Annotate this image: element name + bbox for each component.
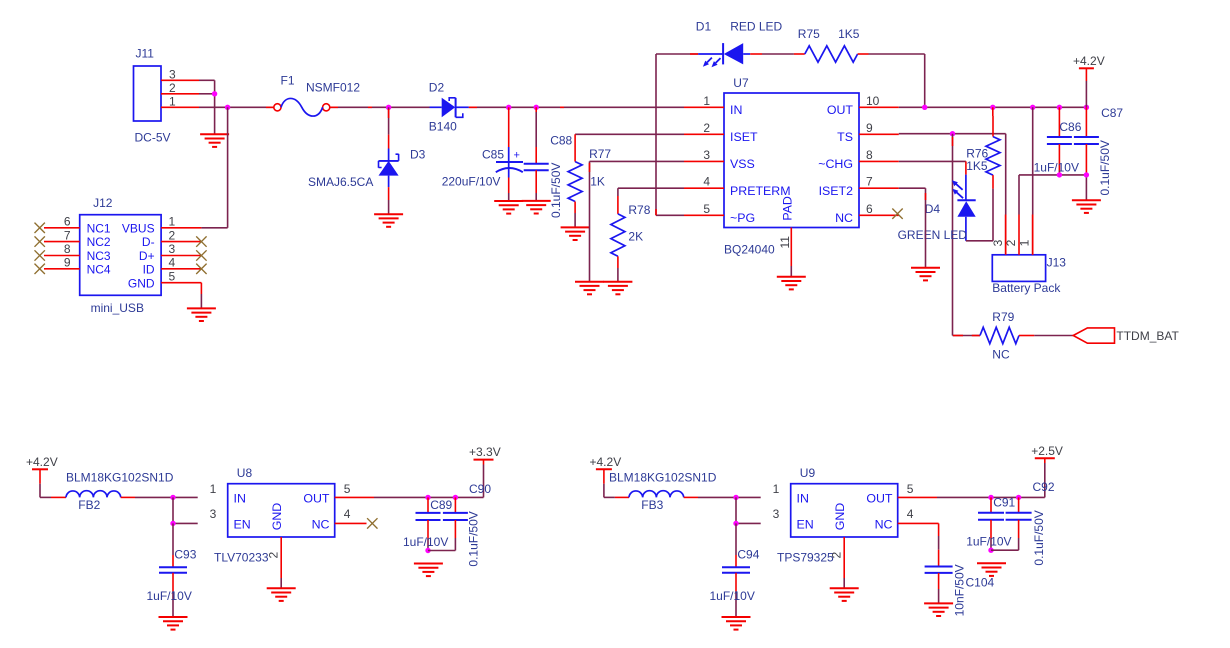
capacitor C85 220uF/10V xyxy=(442,107,523,201)
wire J11 pin1 to F1 xyxy=(199,106,274,108)
svg-text:1K5: 1K5 xyxy=(838,27,860,41)
svg-text:2: 2 xyxy=(1004,239,1018,246)
svg-text:4: 4 xyxy=(344,507,351,521)
capacitor C94 1uF/10V xyxy=(735,523,737,555)
ground J12 xyxy=(187,308,216,321)
junction dot C91 top xyxy=(988,495,993,500)
wire R75 to OUT xyxy=(924,54,926,107)
svg-text:5: 5 xyxy=(344,482,351,496)
svg-text:OUT: OUT xyxy=(303,492,330,506)
svg-text:7: 7 xyxy=(866,175,873,189)
svg-text:C89: C89 xyxy=(430,498,452,512)
junction dot VBUS node xyxy=(225,105,230,110)
svg-text:NC: NC xyxy=(835,211,853,225)
wire J12 VBUS xyxy=(201,227,227,229)
svg-text:TS: TS xyxy=(837,130,853,144)
junction dot C91 bottom xyxy=(988,548,993,553)
svg-text:10: 10 xyxy=(866,94,880,108)
svg-text:3: 3 xyxy=(210,507,217,521)
wire OUT rail xyxy=(899,106,1087,108)
svg-text:10nF/50V: 10nF/50V xyxy=(953,564,967,616)
net flag TTDM_BAT xyxy=(1073,328,1179,343)
wire IN node U8 section xyxy=(173,496,198,498)
svg-text:FB3: FB3 xyxy=(641,498,663,512)
svg-text:TLV70233: TLV70233 xyxy=(214,551,269,565)
wire J11 pin3 to gnd bus xyxy=(199,79,215,81)
svg-text:NC4: NC4 xyxy=(87,262,111,276)
junction dot C87 bottom xyxy=(1084,172,1089,177)
svg-text:C90: C90 xyxy=(469,482,491,496)
svg-text:GND: GND xyxy=(128,276,155,290)
svg-text:0.1uF/50V: 0.1uF/50V xyxy=(1032,510,1046,565)
svg-text:2: 2 xyxy=(830,552,844,559)
resistor R79 NC xyxy=(953,310,1074,362)
junction dot EN U9 section xyxy=(733,521,738,526)
svg-text:+4.2V: +4.2V xyxy=(1073,54,1105,68)
junction dot EN U8 section xyxy=(170,521,175,526)
no-connect X J12 pin 6 xyxy=(35,223,45,233)
power +4.2V U8 section xyxy=(26,455,58,470)
svg-text:NC3: NC3 xyxy=(87,249,111,263)
svg-text:D1: D1 xyxy=(696,20,712,34)
svg-text:OUT: OUT xyxy=(866,492,893,506)
power +2.5V xyxy=(1031,444,1063,459)
svg-text:C93: C93 xyxy=(174,548,196,562)
connector J12 mini_USB xyxy=(44,196,201,315)
ground C94 xyxy=(722,617,751,630)
junction dot J13 pin1 top xyxy=(1030,105,1035,110)
svg-text:8: 8 xyxy=(64,242,71,256)
svg-text:C104: C104 xyxy=(966,575,995,589)
wire OUT rail U8 xyxy=(428,496,484,498)
wire OUT U8 section xyxy=(335,496,374,498)
wire F1 to D2 xyxy=(330,106,430,108)
svg-text:D+: D+ xyxy=(139,249,155,263)
resistor R75 1K5 xyxy=(750,27,925,62)
svg-text:TPS79325: TPS79325 xyxy=(777,551,834,565)
wire VBUS vertical to J12 xyxy=(227,107,229,228)
junction dot pin2/gnd xyxy=(212,91,217,96)
junction dot C86 top xyxy=(1057,105,1062,110)
svg-text:9: 9 xyxy=(64,256,71,270)
svg-text:C86: C86 xyxy=(1059,120,1081,134)
svg-text:C94: C94 xyxy=(737,548,759,562)
svg-text:U9: U9 xyxy=(800,466,816,480)
no-connect X J12 pin 8 xyxy=(35,250,45,260)
svg-text:4: 4 xyxy=(169,256,176,270)
LED D4 GREEN LED xyxy=(898,175,976,242)
svg-text:mini_USB: mini_USB xyxy=(91,301,144,315)
junction dot C88 xyxy=(534,105,539,110)
wire U9 NC to C104 xyxy=(898,522,939,524)
svg-text:1: 1 xyxy=(1018,239,1032,246)
svg-text:BQ24040: BQ24040 xyxy=(724,243,775,257)
ground C104 xyxy=(924,603,953,616)
svg-text:B140: B140 xyxy=(429,120,457,134)
wire U7 ~CHG to D4 xyxy=(899,160,966,162)
ground U7 PAD pin11 xyxy=(777,277,806,290)
svg-text:J11: J11 xyxy=(136,47,155,61)
svg-text:PAD: PAD xyxy=(780,196,794,221)
svg-text:PRETERM: PRETERM xyxy=(730,184,791,198)
svg-text:7: 7 xyxy=(64,228,71,242)
svg-text:ISET: ISET xyxy=(730,130,758,144)
svg-text:4: 4 xyxy=(703,175,710,189)
ferrite bead FB2 BLM18KG102SN1D xyxy=(40,496,51,498)
ground C85 xyxy=(494,201,523,214)
ferrite bead FB3 BLM18KG102SN1D xyxy=(604,496,615,498)
svg-text:R79: R79 xyxy=(992,310,1014,324)
svg-text:~PG: ~PG xyxy=(730,211,755,225)
junction dot C90 top xyxy=(453,495,458,500)
ground VSS xyxy=(575,282,604,295)
ground C86/C87 xyxy=(1072,200,1101,213)
svg-text:+4.2V: +4.2V xyxy=(590,455,622,469)
ground D3 xyxy=(374,214,403,227)
no-connect X J12 ID xyxy=(196,264,206,274)
svg-text:FB2: FB2 xyxy=(78,498,100,512)
svg-text:C85: C85 xyxy=(482,147,504,161)
svg-text:J12: J12 xyxy=(93,196,113,210)
no-connect X J12 pin 7 xyxy=(35,236,45,246)
wire J13 pin1 vertical xyxy=(1032,107,1034,255)
svg-text:3: 3 xyxy=(773,507,780,521)
svg-text:NC: NC xyxy=(312,518,330,532)
resistor R77 1K xyxy=(568,134,611,227)
ground J11 xyxy=(200,134,229,147)
svg-text:3: 3 xyxy=(169,68,176,82)
svg-text:2: 2 xyxy=(169,81,176,95)
IC U8 TLV70233 xyxy=(228,484,335,537)
junction dot C92 top xyxy=(1016,495,1021,500)
svg-text:C91: C91 xyxy=(993,495,1015,509)
svg-text:OUT: OUT xyxy=(827,103,854,117)
wire U7 ISET2 to ground xyxy=(899,187,926,189)
svg-text:3: 3 xyxy=(169,242,176,256)
svg-text:GREEN LED: GREEN LED xyxy=(898,228,968,242)
svg-text:IN: IN xyxy=(730,103,742,117)
svg-text:8: 8 xyxy=(866,148,873,162)
junction dot C86 bottom xyxy=(1057,172,1062,177)
svg-text:ISET2: ISET2 xyxy=(819,184,854,198)
wire J13 pin2 vertical xyxy=(1018,175,1020,215)
svg-text:5: 5 xyxy=(703,202,710,216)
svg-text:D4: D4 xyxy=(925,202,941,216)
svg-text:+2.5V: +2.5V xyxy=(1031,444,1063,458)
svg-text:NC: NC xyxy=(875,518,893,532)
svg-text:1uF/10V: 1uF/10V xyxy=(966,535,1011,549)
svg-text:R77: R77 xyxy=(589,147,611,161)
power +4.2V main xyxy=(1073,54,1105,69)
svg-text:Battery Pack: Battery Pack xyxy=(992,281,1061,295)
resistor R78 2K xyxy=(611,188,651,282)
power +3.3V xyxy=(469,445,501,460)
svg-text:+3.3V: +3.3V xyxy=(469,445,501,459)
connector J13 Battery Pack xyxy=(991,215,1066,296)
svg-text:DC-5V: DC-5V xyxy=(135,131,171,145)
wire OUT U9 section xyxy=(898,496,937,498)
capacitor C86 1uF/10V xyxy=(1034,107,1082,175)
svg-text:9: 9 xyxy=(866,121,873,135)
no-connect X pin6 xyxy=(892,209,902,219)
svg-text:4: 4 xyxy=(907,507,914,521)
svg-text:NSMF012: NSMF012 xyxy=(306,81,360,95)
svg-text:0.1uF/50V: 0.1uF/50V xyxy=(549,163,563,218)
ground C93 xyxy=(159,617,188,630)
svg-text:IN: IN xyxy=(797,492,809,506)
schottky diode D2 B140 xyxy=(429,81,469,134)
svg-text:BLM18KG102SN1D: BLM18KG102SN1D xyxy=(609,470,717,484)
svg-text:IN: IN xyxy=(234,492,246,506)
svg-text:NC2: NC2 xyxy=(87,235,111,249)
svg-text:1: 1 xyxy=(703,94,710,108)
svg-text:1: 1 xyxy=(773,482,780,496)
resistor R76 1K5 xyxy=(966,107,1000,188)
svg-text:C92: C92 xyxy=(1033,480,1055,494)
svg-text:2: 2 xyxy=(169,228,176,242)
svg-text:220uF/10V: 220uF/10V xyxy=(442,175,501,189)
svg-text:5: 5 xyxy=(907,482,914,496)
svg-text:0.1uF/50V: 0.1uF/50V xyxy=(1098,140,1112,195)
svg-text:J13: J13 xyxy=(1047,256,1067,270)
svg-text:ID: ID xyxy=(143,262,155,276)
ground R78 xyxy=(603,282,632,295)
junction dot C85 xyxy=(506,105,511,110)
svg-text:3: 3 xyxy=(991,239,1005,246)
svg-text:C87: C87 xyxy=(1101,106,1123,120)
capacitor C104 10nF/50V xyxy=(925,567,953,573)
svg-text:5: 5 xyxy=(169,269,176,283)
svg-text:1uF/10V: 1uF/10V xyxy=(403,535,448,549)
capacitor C88 0.1uF/50V xyxy=(524,107,573,218)
junction dot C89 bottom xyxy=(425,548,430,553)
svg-text:VSS: VSS xyxy=(730,157,755,171)
wire U7 ~PG to D1 xyxy=(656,214,684,216)
ground C89/C90 xyxy=(414,564,443,577)
svg-text:GND: GND xyxy=(270,503,284,531)
svg-text:2K: 2K xyxy=(628,230,643,244)
no-connect X J12 D- xyxy=(196,236,206,246)
svg-text:D-: D- xyxy=(142,235,155,249)
svg-text:R78: R78 xyxy=(628,203,650,217)
LED D1 RED LED xyxy=(656,20,783,68)
svg-text:SMAJ6.5CA: SMAJ6.5CA xyxy=(308,175,373,189)
svg-text:RED LED: RED LED xyxy=(730,20,782,34)
svg-text:6: 6 xyxy=(866,202,873,216)
svg-text:EN: EN xyxy=(234,518,251,532)
svg-text:D3: D3 xyxy=(410,148,426,162)
junction dot C87 top xyxy=(1084,105,1089,110)
svg-text:NC: NC xyxy=(992,348,1010,362)
no-connect X J12 D+ xyxy=(196,250,206,260)
IC U7 BQ24040 xyxy=(684,76,899,277)
svg-text:R75: R75 xyxy=(798,27,820,41)
svg-text:1: 1 xyxy=(169,215,176,229)
ground U8 GND xyxy=(267,588,296,601)
wire D4 to R76 bottom xyxy=(966,240,993,242)
wire U7 PRETERM to R78 xyxy=(618,187,684,189)
capacitor C91 1uF/10V xyxy=(990,497,992,512)
svg-text:U8: U8 xyxy=(237,466,253,480)
no-connect X U8 pin4 xyxy=(367,518,377,528)
wire EN link U8 section xyxy=(172,497,174,523)
wire cap bottom bus xyxy=(1019,174,1086,176)
wire J11 pin2 to gnd bus xyxy=(199,93,215,95)
svg-text:0.1uF/50V: 0.1uF/50V xyxy=(467,511,481,566)
svg-text:1uF/10V: 1uF/10V xyxy=(1034,160,1079,174)
ground ISET2 xyxy=(911,268,940,281)
junction dot IN U9 section xyxy=(733,495,738,500)
svg-text:2: 2 xyxy=(267,552,281,559)
wire OUT rail U9 xyxy=(991,496,1045,498)
wire D1 vertical xyxy=(655,54,657,215)
svg-text:1uF/10V: 1uF/10V xyxy=(710,589,755,603)
svg-text:1K5: 1K5 xyxy=(966,159,988,173)
svg-text:F1: F1 xyxy=(281,74,295,88)
svg-text:6: 6 xyxy=(64,215,71,229)
ground R77 xyxy=(561,227,590,240)
wire U7 TS to J13 pin3 xyxy=(899,133,1006,135)
wire EN link U9 section xyxy=(735,497,737,523)
svg-text:BLM18KG102SN1D: BLM18KG102SN1D xyxy=(66,470,174,484)
wire gnd bus vertical xyxy=(214,80,216,134)
ground U9 GND xyxy=(830,588,859,601)
svg-text:D2: D2 xyxy=(429,81,445,95)
capacitor C93 1uF/10V xyxy=(172,523,174,555)
ground C88 xyxy=(522,201,551,214)
svg-text:~CHG: ~CHG xyxy=(818,157,853,171)
junction dot R76 top xyxy=(990,105,995,110)
wire rail D2 to U7 IN xyxy=(469,106,684,108)
svg-text:VBUS: VBUS xyxy=(122,221,155,235)
wire J12 GND to ground xyxy=(200,283,202,294)
power +4.2V U9 section xyxy=(590,455,622,470)
connector J11 DC-5V xyxy=(134,47,200,145)
svg-text:NC1: NC1 xyxy=(87,221,111,235)
junction dot D3 node xyxy=(386,105,391,110)
svg-text:+: + xyxy=(514,150,520,162)
wire U7 VSS to ground xyxy=(590,160,685,162)
wire IN node U9 section xyxy=(736,496,761,498)
svg-text:1: 1 xyxy=(169,95,176,109)
svg-text:C88: C88 xyxy=(550,133,572,147)
no-connect X J12 pin 9 xyxy=(35,264,45,274)
capacitor C90 0.1uF/50V xyxy=(454,497,456,513)
svg-text:1: 1 xyxy=(210,482,217,496)
svg-text:11: 11 xyxy=(778,236,792,249)
svg-text:3: 3 xyxy=(703,148,710,162)
TVS diode D3 SMAJ6.5CA xyxy=(308,107,426,214)
wire J13 pin3 vertical xyxy=(1005,134,1007,255)
svg-text:2: 2 xyxy=(703,121,710,135)
junction dot OUT/R75 xyxy=(922,105,927,110)
wire TS branch down to R79 xyxy=(952,134,954,336)
capacitor C87 0.1uF/50V xyxy=(1074,106,1124,200)
svg-text:1K: 1K xyxy=(590,174,605,188)
svg-text:EN: EN xyxy=(797,518,814,532)
wire U7 ISET to R77 xyxy=(575,133,684,135)
svg-text:1uF/10V: 1uF/10V xyxy=(147,589,192,603)
fuse F1 NSMF012 xyxy=(274,74,361,117)
junction dot TS branch xyxy=(950,131,955,136)
svg-text:+4.2V: +4.2V xyxy=(26,455,58,469)
ground C91/C92 xyxy=(977,563,1006,576)
junction dot IN U8 section xyxy=(170,495,175,500)
svg-text:GND: GND xyxy=(833,503,847,531)
capacitor C89 1uF/10V xyxy=(427,497,429,513)
junction dot C89 top xyxy=(425,495,430,500)
svg-text:U7: U7 xyxy=(733,76,749,90)
wire U8 NC pin4 xyxy=(335,522,367,524)
IC U9 TPS79325 xyxy=(791,484,898,537)
capacitor C92 0.1uF/50V xyxy=(1018,497,1020,512)
svg-text:TTDM_BAT: TTDM_BAT xyxy=(1116,329,1179,343)
